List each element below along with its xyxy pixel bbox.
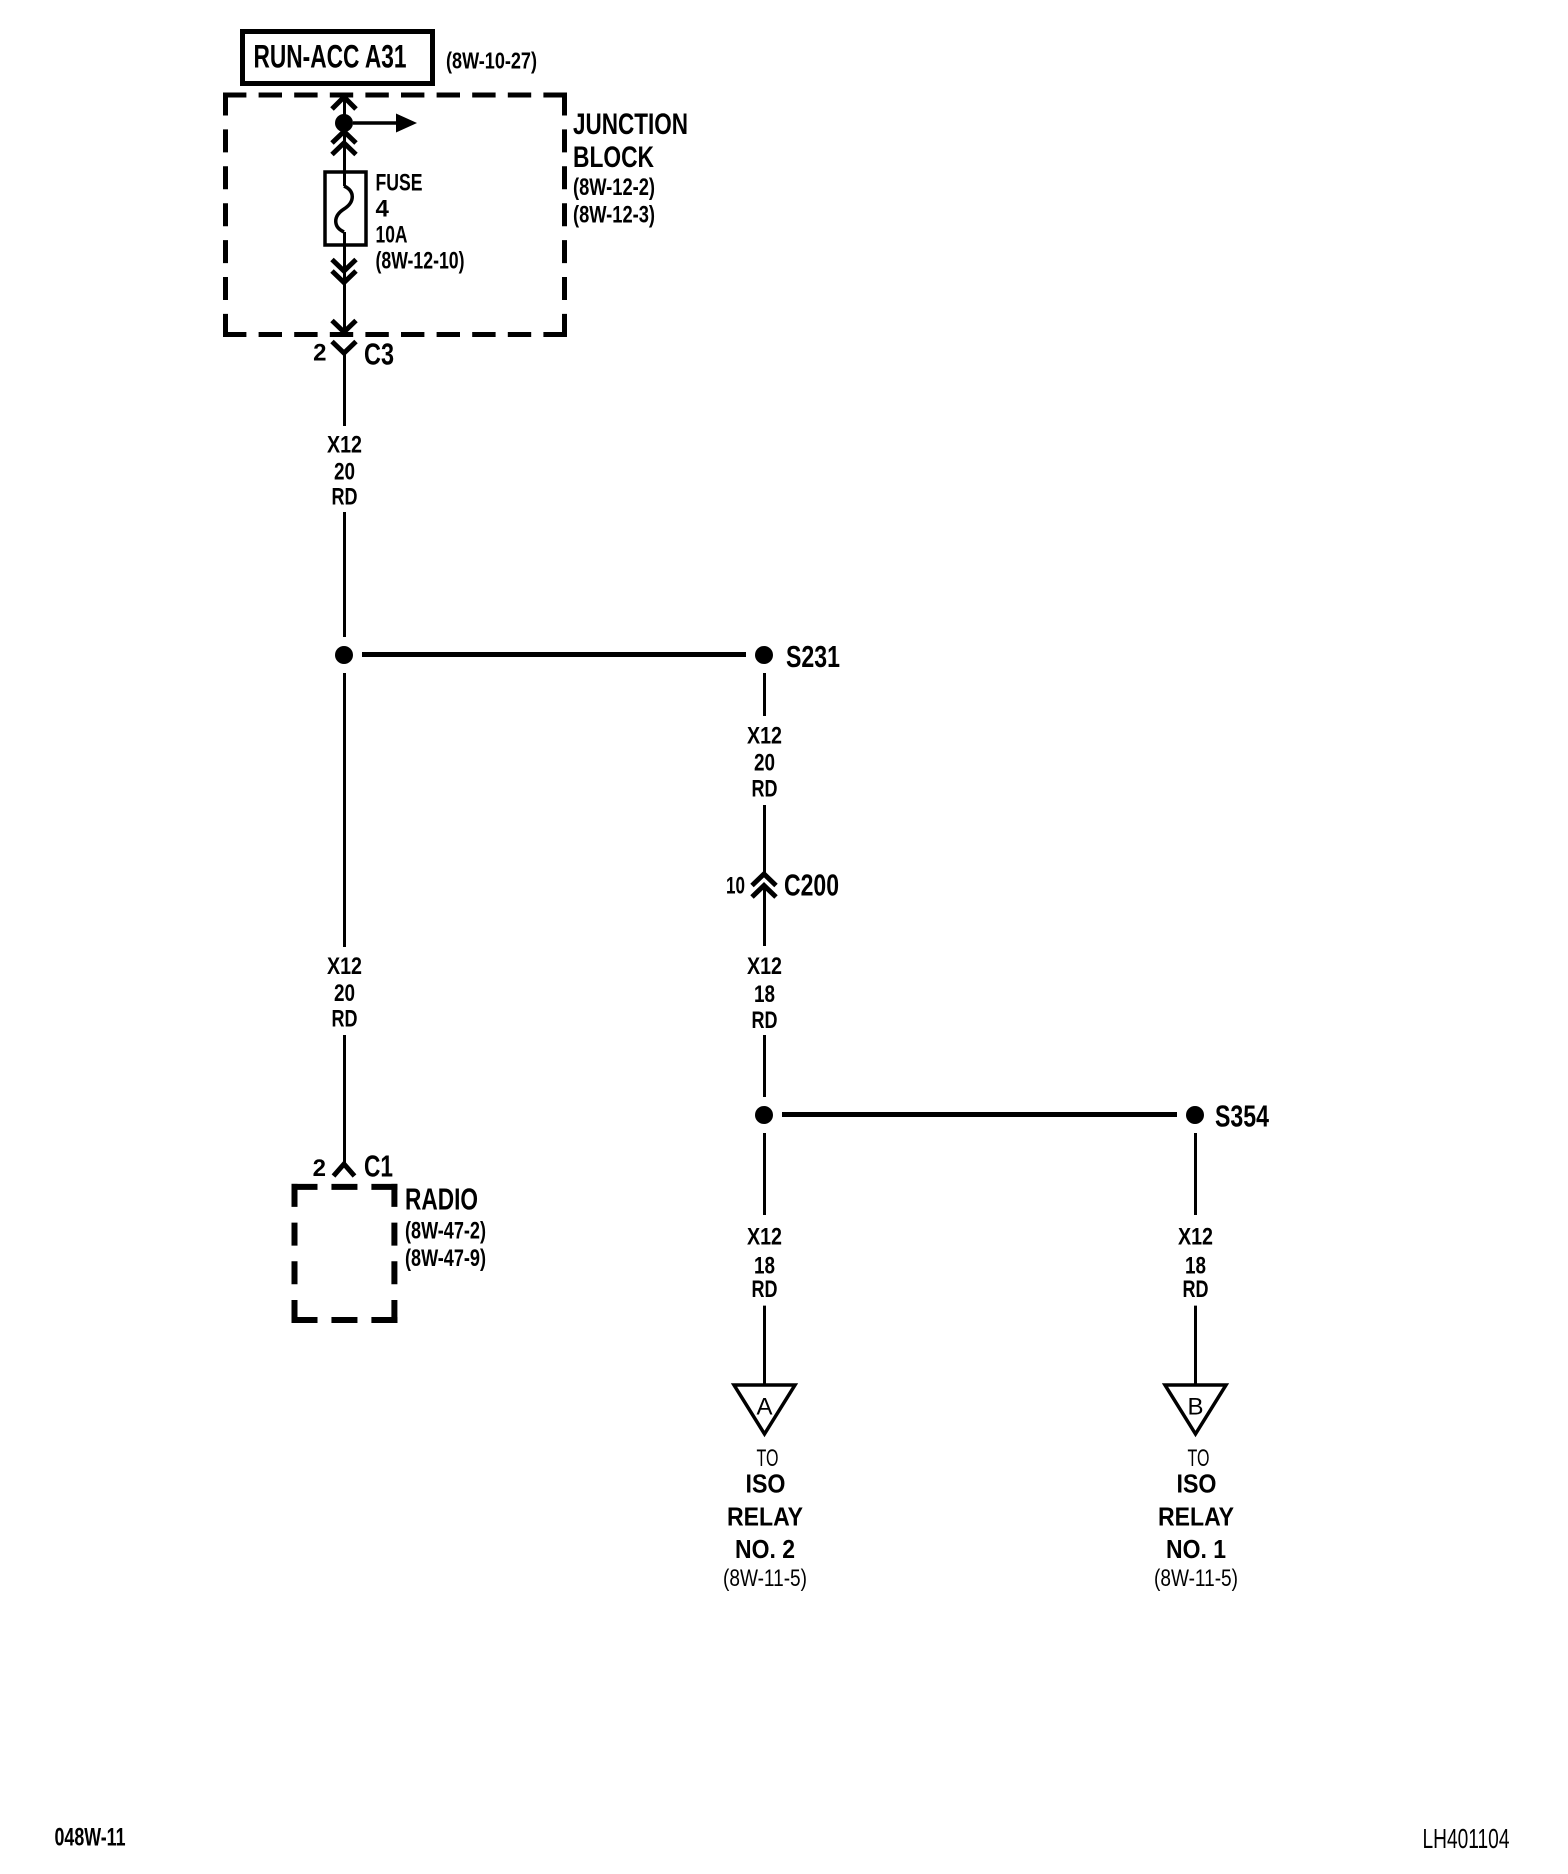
fuse F4	[325, 172, 366, 245]
svg-text:FUSE: FUSE	[376, 170, 423, 197]
svg-text:ISO: ISO	[746, 1469, 786, 1499]
svg-text:20: 20	[334, 980, 355, 1007]
node: branch dot inside junction block	[335, 114, 353, 132]
connector C3 symbol	[332, 342, 356, 354]
svg-text:RD: RD	[332, 1006, 358, 1033]
connector chevrons below dot	[332, 132, 356, 144]
svg-text:BLOCK: BLOCK	[573, 141, 654, 174]
svg-text:NO. 1: NO. 1	[1166, 1534, 1226, 1564]
wire label X12 20 RD	[327, 953, 362, 1033]
svg-text:4: 4	[376, 196, 390, 223]
radio dashed box	[292, 1184, 398, 1323]
svg-text:(8W-12-10): (8W-12-10)	[376, 248, 465, 275]
svg-text:10A: 10A	[376, 222, 408, 249]
svg-text:(8W-47-2): (8W-47-2)	[405, 1218, 486, 1245]
wire: splice horizontal to S231	[362, 652, 746, 657]
svg-text:ISO: ISO	[1177, 1469, 1217, 1499]
off-page connector A	[734, 1385, 795, 1434]
connector C200 symbol	[752, 874, 776, 897]
wire: branch B down	[1194, 1133, 1197, 1215]
wire label X12 18 RD	[747, 1224, 782, 1304]
wire label X12 20 RD	[747, 723, 782, 803]
svg-text:RD: RD	[332, 484, 358, 511]
svg-text:2: 2	[313, 1155, 326, 1182]
svg-text:10: 10	[726, 873, 745, 900]
off-page connector B	[1165, 1385, 1226, 1434]
svg-text:20: 20	[754, 750, 775, 777]
fuse label	[376, 170, 465, 275]
svg-text:S354: S354	[1215, 1099, 1270, 1134]
svg-text:RUN-ACC A31: RUN-ACC A31	[254, 39, 407, 75]
wire: C3 down	[343, 353, 346, 426]
radio label	[405, 1182, 486, 1273]
svg-text:X12: X12	[747, 723, 782, 750]
fuse-box label RUN-ACC A31	[243, 32, 433, 84]
arrowhead up at junction block top border	[332, 97, 356, 109]
wire: branch A down	[763, 1133, 766, 1215]
svg-text:(8W-10-27): (8W-10-27)	[446, 48, 537, 74]
wire: down to C1	[343, 1035, 346, 1164]
svg-text:RD: RD	[752, 1007, 778, 1034]
svg-text:S231: S231	[786, 639, 840, 674]
svg-text:X12: X12	[1178, 1224, 1213, 1251]
svg-text:(8W-47-9): (8W-47-9)	[405, 1245, 486, 1272]
svg-text:LH401104: LH401104	[1423, 1823, 1510, 1854]
svg-text:X12: X12	[747, 953, 782, 980]
junction block label	[573, 108, 688, 229]
junction block dashed box	[223, 93, 567, 338]
arrowhead of branch arrow	[396, 114, 417, 133]
wire: down to splice	[343, 512, 346, 637]
connector C1 symbol	[334, 1164, 355, 1176]
svg-text:X12: X12	[327, 953, 362, 980]
svg-text:(8W-11-5): (8W-11-5)	[723, 1565, 807, 1592]
svg-text:B: B	[1187, 1394, 1203, 1421]
wire: left branch down	[343, 673, 346, 947]
arrowhead down at junction block bottom border	[332, 321, 356, 333]
svg-text:C200: C200	[784, 868, 839, 903]
wire: down to C200	[763, 805, 766, 874]
svg-text:2: 2	[313, 340, 326, 367]
wire label X12 20 RD	[327, 432, 362, 511]
wire: down to connector B	[1194, 1306, 1197, 1384]
svg-text:RD: RD	[1183, 1276, 1209, 1303]
svg-text:(8W-12-3): (8W-12-3)	[573, 202, 655, 229]
destination label A	[723, 1445, 807, 1592]
svg-text:JUNCTION: JUNCTION	[573, 108, 688, 141]
wire: feed into junction block	[343, 97, 346, 186]
svg-text:A: A	[756, 1394, 772, 1421]
node S354	[1186, 1106, 1204, 1124]
node S231	[755, 646, 773, 664]
svg-text:(8W-11-5): (8W-11-5)	[1154, 1565, 1238, 1592]
wire label X12 18 RD	[1178, 1224, 1213, 1304]
connector chevrons below fuse	[332, 260, 356, 272]
node: splice dot	[755, 1106, 773, 1124]
svg-text:RADIO: RADIO	[405, 1182, 478, 1217]
wire: down to connector A	[763, 1306, 766, 1384]
wire: horizontal to S354	[782, 1112, 1177, 1117]
svg-text:18: 18	[754, 981, 775, 1008]
svg-text:(8W-12-2): (8W-12-2)	[573, 174, 655, 201]
node: splice dot left	[335, 646, 353, 664]
svg-text:20: 20	[334, 459, 355, 486]
svg-text:RD: RD	[752, 776, 778, 803]
svg-text:RELAY: RELAY	[1158, 1501, 1234, 1531]
wire: branch arrow to right	[353, 121, 398, 125]
wire: fuse to block bottom	[343, 232, 346, 330]
wire: down to splice S354 row	[763, 1035, 766, 1097]
svg-text:RELAY: RELAY	[727, 1501, 803, 1531]
svg-text:C3: C3	[364, 337, 394, 372]
destination label B	[1154, 1445, 1238, 1592]
wire: C200 down	[763, 886, 766, 946]
svg-text:NO. 2: NO. 2	[735, 1534, 795, 1564]
svg-text:RD: RD	[752, 1276, 778, 1303]
svg-text:X12: X12	[327, 432, 362, 459]
svg-text:C1: C1	[364, 1149, 393, 1184]
svg-text:048W-11: 048W-11	[55, 1824, 126, 1852]
wire: S231 branch down	[763, 673, 766, 716]
wire label X12 18 RD	[747, 953, 782, 1034]
svg-text:X12: X12	[747, 1224, 782, 1251]
